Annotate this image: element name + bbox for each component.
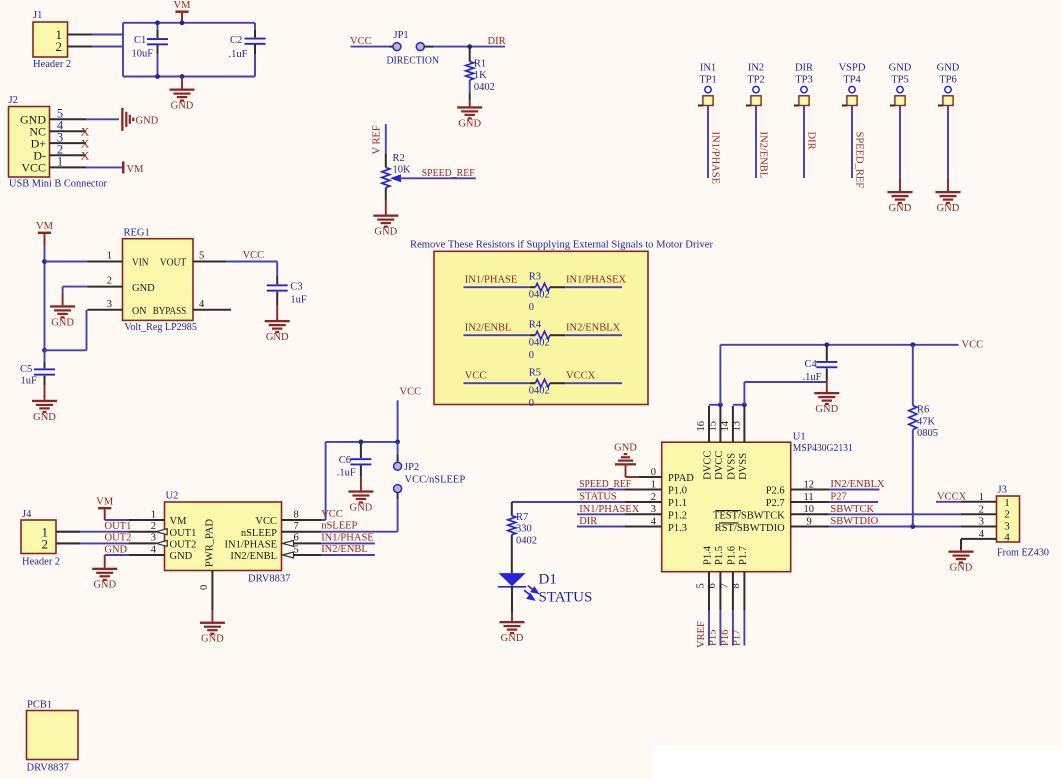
svg-text:DVSS: DVSS: [738, 453, 749, 480]
svg-text:DIRECTION: DIRECTION: [387, 56, 440, 67]
svg-text:Header 2: Header 2: [33, 59, 71, 70]
resistor R1 1K 0402: [469, 47, 471, 62]
svg-text:VCC: VCC: [350, 36, 372, 47]
connector J2 USB: [9, 107, 50, 178]
connector J4: [21, 520, 56, 554]
overline TEST: [716, 510, 742, 512]
svg-text:8: 8: [294, 509, 299, 520]
wire VCC rail top: [720, 344, 958, 346]
pin U1-3 P1.2 IN1/PHASEX: [624, 513, 661, 515]
svg-text:D1: D1: [539, 572, 557, 588]
svg-text:DRV8837: DRV8837: [27, 763, 69, 774]
ground below C3: [276, 305, 278, 320]
resistor R6 47K 0805: [912, 345, 914, 406]
svg-text:VCC/nSLEEP: VCC/nSLEEP: [405, 475, 466, 486]
pin REG1-3 ON: [88, 309, 123, 311]
svg-text:10K: 10K: [393, 165, 412, 176]
svg-text:VOUT: VOUT: [160, 258, 187, 269]
pin D1 cathode: [511, 587, 513, 612]
svg-text:.1uF: .1uF: [229, 49, 248, 60]
svg-text:Volt_Reg LP2985: Volt_Reg LP2985: [124, 322, 196, 333]
wire J1 to input caps: [92, 34, 123, 36]
svg-text:4: 4: [1004, 532, 1010, 544]
pin REG1-5 VOUT: [193, 261, 227, 263]
svg-text:JP1: JP1: [394, 30, 409, 41]
svg-text:0402: 0402: [529, 338, 550, 349]
svg-text:4: 4: [199, 299, 205, 310]
svg-text:JP2: JP2: [404, 462, 419, 473]
wire TP3 net DIR: [803, 106, 805, 179]
svg-text:VCC: VCC: [321, 509, 343, 520]
svg-text:TP1: TP1: [699, 75, 717, 86]
wire SPEED_REF: [400, 177, 476, 179]
svg-text:0805: 0805: [917, 428, 938, 439]
pins U1 bottom 5 6 7 8: [708, 572, 710, 610]
ground below C6: [360, 476, 362, 490]
svg-text:VCC: VCC: [21, 161, 46, 175]
svg-text:P1.2: P1.2: [668, 511, 687, 522]
pin U2-6 IN1/PHASE: [283, 540, 294, 546]
svg-text:VM: VM: [127, 164, 145, 175]
capacitor C4 .1uF: [826, 345, 828, 361]
junction dots: [155, 20, 160, 25]
svg-text:10uF: 10uF: [132, 49, 154, 60]
wire C6 rail: [326, 441, 398, 443]
junction R1 tap: [467, 44, 472, 49]
svg-text:GND: GND: [171, 101, 194, 112]
ground below R1: [469, 100, 471, 106]
pins U1 top 16 15 14 13: [708, 406, 710, 442]
svg-text:DVSS: DVSS: [726, 453, 737, 480]
svg-text:GND: GND: [132, 283, 155, 294]
svg-text:5: 5: [294, 544, 299, 555]
ground flipped at PPAD: [615, 453, 636, 466]
op-amp U2 DRV8837 body: [165, 502, 282, 571]
svg-text:J3: J3: [998, 485, 1007, 496]
wire J2 VCC to VM: [86, 166, 122, 168]
pin U2-5 IN2/ENBL: [283, 552, 294, 558]
svg-text:GND: GND: [266, 332, 289, 343]
svg-text:Remove These Resistors if Supp: Remove These Resistors if Supplying Exte…: [410, 240, 713, 251]
svg-text:PCB1: PCB1: [27, 700, 52, 711]
wire OUT1 to J4: [56, 531, 128, 533]
wire DVCC to VCC rail: [709, 404, 720, 406]
svg-text:REG1: REG1: [124, 227, 150, 238]
svg-text:.1uF: .1uF: [337, 467, 356, 478]
svg-text:OUT1: OUT1: [170, 528, 197, 539]
svg-text:1K: 1K: [474, 70, 487, 81]
svg-text:GND: GND: [501, 633, 524, 644]
svg-text:0: 0: [529, 350, 534, 361]
ground below D1: [511, 612, 513, 621]
pin U2-0 PWR_PAD: [211, 571, 213, 611]
svg-text:0402: 0402: [529, 290, 550, 301]
svg-text:7: 7: [294, 521, 299, 532]
wire TP2 net IN2/ENBL: [755, 106, 757, 179]
svg-text:GND: GND: [93, 580, 116, 591]
connector J1: [33, 22, 68, 57]
jumper JP1: [389, 46, 393, 48]
svg-text:nSLEEP: nSLEEP: [321, 521, 357, 532]
svg-text:C3: C3: [290, 281, 302, 292]
pin U1-1 P1.0 SPEED_REF: [624, 489, 661, 491]
pin J4-1: [56, 531, 80, 533]
svg-text:GND: GND: [614, 443, 637, 454]
svg-text:TP6: TP6: [939, 75, 957, 86]
svg-text:R1: R1: [474, 58, 486, 69]
ground below C4: [826, 380, 828, 392]
connector J3: [997, 496, 1020, 542]
svg-text:J1: J1: [33, 10, 42, 21]
pin REG1-4 BYPASS: [193, 309, 231, 311]
svg-text:P2.6: P2.6: [766, 486, 785, 497]
wire bottom rail: [123, 76, 255, 78]
ground at U2 pin4: [104, 555, 106, 568]
svg-text:.1uF: .1uF: [803, 372, 822, 383]
svg-text:VM: VM: [96, 496, 114, 507]
pin REG1-1 VIN: [45, 261, 88, 263]
wire TP1 net IN1/PHASE: [707, 106, 709, 179]
led arrows: [524, 586, 538, 600]
pin U1-4 P1.3 DIR: [624, 526, 661, 528]
pin J3-4 to gnd: [961, 538, 997, 540]
resistor R3 0402 0 ohm: [464, 286, 531, 288]
svg-text:U2: U2: [166, 490, 179, 501]
pin U1-10 SBWTCK: [791, 513, 829, 515]
svg-text:P1.0: P1.0: [668, 486, 687, 497]
svg-text:47K: 47K: [917, 416, 936, 427]
svg-text:VCC: VCC: [243, 250, 265, 261]
svg-text:1: 1: [151, 509, 156, 520]
svg-text:IN2: IN2: [748, 63, 764, 74]
note box R3 R4 R5: [434, 251, 648, 404]
ground below J3: [960, 549, 962, 551]
voltage regulator REG1 LP2985: [123, 239, 194, 321]
svg-text:IN1: IN1: [700, 63, 716, 74]
svg-text:R7: R7: [516, 512, 528, 523]
svg-text:SPEED_REF: SPEED_REF: [422, 168, 475, 179]
svg-text:IN2/ENBL: IN2/ENBL: [230, 551, 277, 562]
resistor R2 10K pot: [382, 168, 390, 188]
svg-text:R3: R3: [529, 272, 541, 283]
ground below R2: [385, 200, 387, 215]
pin U2-1 VM: [105, 519, 129, 521]
pin REG1-2 GND: [88, 286, 123, 288]
svg-text:Header 2: Header 2: [22, 556, 60, 567]
pin U1-0 PPAD: [639, 476, 662, 478]
svg-text:VSPD: VSPD: [839, 63, 866, 74]
pin U2-4 GND: [128, 554, 164, 556]
svg-text:P1.7: P1.7: [738, 546, 749, 565]
svg-text:IN2/ENBLX: IN2/ENBLX: [566, 322, 621, 333]
svg-text:TP2: TP2: [747, 75, 765, 86]
svg-text:R4: R4: [529, 320, 542, 331]
svg-text:IN1/PHASEX: IN1/PHASEX: [579, 504, 640, 515]
svg-text:SBWTDIO: SBWTDIO: [830, 516, 878, 527]
svg-text:13: 13: [731, 421, 742, 432]
svg-text:1uF: 1uF: [290, 295, 307, 306]
svg-text:GND: GND: [33, 412, 56, 423]
pin J1-2: [68, 46, 93, 48]
svg-text:DIR: DIR: [806, 132, 817, 150]
svg-text:PWR_PAD: PWR_PAD: [205, 519, 216, 567]
svg-text:GND: GND: [374, 227, 397, 238]
svg-text:2: 2: [107, 276, 112, 287]
svg-text:SPEED_REF: SPEED_REF: [579, 479, 631, 490]
svg-text:VCCX: VCCX: [937, 491, 967, 502]
svg-text:OUT2: OUT2: [105, 533, 132, 544]
svg-text:STATUS: STATUS: [539, 590, 593, 606]
pin J1-1: [68, 34, 93, 36]
svg-text:IN2/ENBL: IN2/ENBL: [465, 322, 512, 333]
pin U1-11 P2.7: [791, 501, 829, 503]
svg-text:VREF: VREF: [696, 621, 707, 648]
wire TP5 to ground: [899, 106, 901, 180]
svg-text:C6: C6: [339, 455, 351, 466]
ground rotated at J2 pin5: [121, 108, 134, 131]
svg-text:TP5: TP5: [891, 75, 909, 86]
svg-text:5: 5: [696, 583, 707, 588]
svg-text:J2: J2: [9, 95, 18, 106]
svg-text:330: 330: [516, 524, 532, 535]
svg-text:VCC: VCC: [962, 340, 984, 351]
svg-text:0402: 0402: [474, 82, 495, 93]
svg-text:3: 3: [151, 533, 156, 544]
svg-text:GND: GND: [170, 551, 193, 562]
svg-text:PPAD: PPAD: [668, 473, 694, 484]
pin U2-8 VCC: [282, 519, 322, 521]
svg-text:X: X: [81, 151, 90, 163]
svg-text:TP3: TP3: [795, 75, 813, 86]
svg-text:GND: GND: [889, 203, 912, 214]
svg-text:GND: GND: [104, 544, 127, 555]
svg-text:6: 6: [707, 583, 718, 588]
resistor R5 0402 0 ohm: [464, 382, 531, 384]
svg-text:MSP430G2131: MSP430G2131: [793, 443, 853, 454]
svg-text:0: 0: [529, 302, 534, 313]
svg-text:P16: P16: [720, 630, 731, 646]
svg-text:VCC: VCC: [400, 387, 422, 398]
svg-text:IN1/PHASEX: IN1/PHASEX: [566, 274, 627, 285]
pin U1-12 P2.6: [791, 489, 829, 491]
svg-text:1uF: 1uF: [21, 376, 38, 387]
ground at REG1 pin2: [62, 292, 64, 305]
svg-text:P2.7: P2.7: [766, 498, 785, 509]
svg-text:DIR: DIR: [488, 36, 506, 47]
svg-text:nSLEEP: nSLEEP: [241, 528, 277, 539]
wire OUT2 to J4: [56, 542, 128, 544]
svg-text:X: X: [81, 126, 90, 138]
wire JP1 to DIR: [433, 46, 505, 48]
resistor R4 0402 0 ohm: [464, 334, 531, 336]
svg-text:IN2/ENBLX: IN2/ENBLX: [830, 479, 885, 490]
svg-text:P17: P17: [731, 630, 742, 646]
pin U1-2 P1.1 STATUS: [624, 501, 661, 503]
svg-text:R5: R5: [529, 368, 541, 379]
svg-text:0402: 0402: [516, 535, 537, 546]
svg-text:4: 4: [151, 544, 157, 555]
svg-text:USB Mini B Connector: USB Mini B Connector: [9, 179, 107, 190]
led D1 STATUS: [499, 573, 526, 586]
svg-text:GND: GND: [136, 116, 159, 127]
svg-text:P1.1: P1.1: [668, 498, 687, 509]
pin J4-2: [56, 542, 80, 544]
svg-text:VCCX: VCCX: [566, 370, 596, 381]
svg-text:VCC: VCC: [465, 370, 487, 381]
svg-text:STATUS: STATUS: [579, 492, 617, 503]
svg-text:VCC: VCC: [255, 516, 277, 527]
capacitor C2: [254, 23, 256, 30]
svg-text:8: 8: [731, 583, 742, 588]
pin J3-2: [961, 513, 997, 515]
wire JP2 to nSLEEP: [397, 499, 399, 532]
pin J3-3: [961, 526, 997, 528]
pin U1-9 SBWTDIO: [791, 526, 829, 528]
svg-text:GND: GND: [937, 203, 960, 214]
svg-text:16: 16: [696, 421, 707, 432]
ground below C1 C2: [181, 77, 183, 89]
svg-text:VIN: VIN: [132, 258, 149, 269]
svg-text:VM: VM: [174, 0, 192, 11]
svg-text:J4: J4: [22, 509, 32, 520]
svg-text:P1.4: P1.4: [703, 545, 714, 565]
resistor R7 330 0402: [511, 502, 513, 516]
svg-text:V REF: V REF: [372, 125, 383, 154]
svg-text:VM: VM: [170, 516, 188, 527]
svg-text:1: 1: [1004, 497, 1010, 509]
svg-text:GND: GND: [51, 317, 74, 328]
svg-text:GND: GND: [350, 502, 373, 513]
svg-text:IN1/PHASE: IN1/PHASE: [710, 132, 721, 185]
svg-text:P27: P27: [830, 492, 846, 503]
svg-text:U1: U1: [793, 431, 806, 442]
wire VM rail left: [44, 245, 46, 350]
svg-text:GND: GND: [889, 63, 912, 74]
svg-text:P1.3: P1.3: [668, 523, 687, 534]
wire TP6 to ground: [947, 106, 949, 180]
capacitor C1: [157, 23, 159, 30]
capacitor C3 1uF: [276, 262, 278, 277]
wire DVSS to C4 gnd: [733, 404, 745, 406]
wire VCC down: [397, 400, 399, 442]
pot wiper arrow: [390, 174, 401, 182]
svg-text:IN1/PHASE: IN1/PHASE: [321, 533, 374, 544]
svg-text:0402: 0402: [529, 386, 550, 397]
svg-text:2: 2: [42, 536, 49, 551]
svg-text:P1.6: P1.6: [726, 546, 737, 565]
ground below C5: [44, 385, 46, 400]
svg-text:C4: C4: [805, 359, 818, 370]
svg-text:TEST/SBWTCK: TEST/SBWTCK: [713, 511, 785, 522]
pin J3-1 VCCX: [961, 501, 997, 503]
capacitor C6 .1uF: [360, 442, 362, 458]
svg-text:X: X: [81, 138, 90, 150]
pin U2-2 OUT1: [156, 529, 167, 535]
svg-text:VM: VM: [36, 221, 54, 232]
svg-text:RST/SBWTDIO: RST/SBWTDIO: [715, 523, 785, 534]
svg-text:IN2/ENBL: IN2/ENBL: [758, 132, 769, 179]
svg-text:R2: R2: [393, 153, 405, 164]
svg-text:6: 6: [294, 533, 299, 544]
svg-text:P1.5: P1.5: [714, 546, 725, 565]
svg-text:GND: GND: [950, 563, 973, 574]
svg-text:From EZ430: From EZ430: [997, 548, 1049, 559]
svg-text:IN1/PHASE: IN1/PHASE: [465, 274, 518, 285]
wire VREF down to R2: [385, 124, 387, 153]
mcu U1 MSP430G2131 body: [662, 442, 791, 572]
svg-text:7: 7: [719, 583, 730, 588]
svg-text:GND: GND: [458, 118, 481, 129]
svg-text:0: 0: [199, 585, 210, 590]
svg-text:ON: ON: [132, 306, 147, 317]
svg-text:GND: GND: [815, 404, 838, 415]
svg-text:BYPASS: BYPASS: [153, 306, 187, 317]
svg-text:R6: R6: [917, 405, 929, 416]
svg-text:2: 2: [151, 521, 156, 532]
svg-text:GND: GND: [201, 634, 224, 645]
pin U2-3 OUT2: [156, 540, 167, 546]
jumper JP2: [397, 442, 399, 455]
svg-text:C2: C2: [230, 35, 242, 46]
svg-text:DRV8837: DRV8837: [248, 574, 290, 585]
component PCB1 DRV8837: [27, 711, 79, 760]
svg-text:DIR: DIR: [795, 63, 813, 74]
wire TP4 net SPEED_REF: [851, 106, 853, 179]
svg-text:DVCC: DVCC: [714, 451, 725, 480]
svg-text:OUT1: OUT1: [105, 521, 132, 532]
wire VM top rail: [123, 22, 255, 24]
wire VCC to JP1: [351, 46, 390, 48]
svg-text:1: 1: [107, 251, 112, 262]
svg-text:SPEED_REF: SPEED_REF: [854, 132, 865, 189]
svg-text:5: 5: [199, 251, 204, 262]
svg-text:C1: C1: [134, 35, 146, 46]
capacitor C5 1uF: [44, 350, 46, 362]
svg-text:GND: GND: [937, 63, 960, 74]
pin U2-7 nSLEEP: [282, 531, 322, 533]
svg-text:P15: P15: [707, 630, 718, 646]
svg-text:2: 2: [1004, 509, 1010, 521]
svg-text:IN1/PHASE: IN1/PHASE: [224, 540, 277, 551]
svg-text:IN2/ENBL: IN2/ENBL: [321, 544, 368, 555]
svg-text:DIR: DIR: [579, 516, 597, 527]
svg-text:2: 2: [56, 39, 63, 54]
ground TP6: [936, 191, 961, 204]
svg-text:OUT2: OUT2: [170, 540, 197, 551]
ground TP5: [888, 191, 913, 204]
svg-text:3: 3: [107, 299, 112, 310]
svg-text:14: 14: [720, 420, 731, 431]
svg-text:TP4: TP4: [843, 75, 861, 86]
overline RST: [719, 522, 739, 524]
wire J2 GND: [86, 118, 119, 120]
power VM at J2 pin1: [122, 161, 125, 173]
svg-text:SBWTCK: SBWTCK: [830, 504, 874, 515]
wire rail down to U2 pin8: [325, 442, 327, 520]
svg-text:C5: C5: [20, 364, 32, 375]
svg-text:0: 0: [529, 398, 534, 409]
svg-text:DVCC: DVCC: [703, 451, 714, 480]
svg-text:15: 15: [707, 421, 718, 432]
ground at U2 pad: [211, 610, 213, 621]
